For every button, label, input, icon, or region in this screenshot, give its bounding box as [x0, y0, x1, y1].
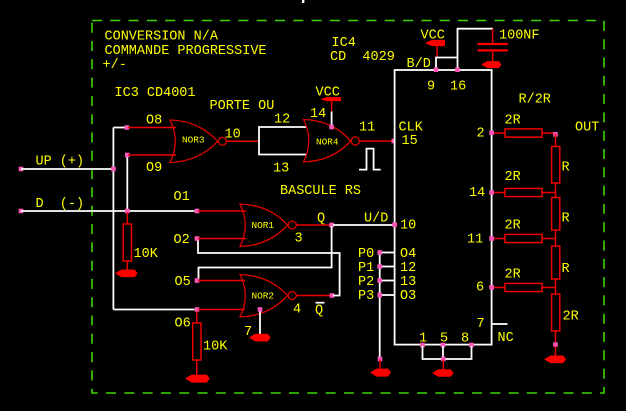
- wire B/D net pin9: [436, 58, 458, 70]
- svg-text:P2: P2: [358, 275, 374, 290]
- svg-text:NC: NC: [498, 331, 514, 346]
- svg-text:10K: 10K: [134, 247, 159, 262]
- junction P3: [377, 293, 382, 298]
- svg-text:12: 12: [274, 113, 290, 128]
- svg-text:O6: O6: [175, 317, 191, 332]
- svg-text:R: R: [562, 212, 570, 227]
- ground 10K lower: [186, 375, 209, 382]
- wire R3 to row6: [555, 279, 557, 294]
- wire pin11 stub: [494, 238, 505, 240]
- wire NOR2 output: [297, 295, 331, 297]
- wire NOR1 input O1: [198, 210, 246, 212]
- wire 2R to node: [542, 132, 556, 134]
- svg-text:NOR3: NOR3: [182, 135, 205, 146]
- svg-text:11: 11: [359, 121, 375, 136]
- junction O5: [195, 278, 200, 283]
- svg-text:10: 10: [225, 128, 241, 143]
- svg-text:2: 2: [477, 127, 485, 142]
- svg-text:CONVERSION N/A: CONVERSION N/A: [105, 30, 219, 45]
- wire resistor to ground: [126, 261, 128, 271]
- wire O8 stub: [113, 127, 125, 129]
- nor-gate NOR4: [304, 120, 360, 163]
- svg-text:2R: 2R: [505, 268, 521, 283]
- capacitor 100NF plates: [478, 43, 508, 51]
- svg-text:12: 12: [400, 261, 416, 276]
- svg-text:B/D: B/D: [407, 57, 431, 72]
- svg-text:P0: P0: [358, 247, 374, 262]
- wire node to ground: [555, 346, 557, 357]
- svg-text:U/D: U/D: [364, 212, 388, 227]
- resistor R3: [552, 246, 570, 279]
- svg-text:10: 10: [400, 219, 416, 234]
- junction pin5 bottom: [441, 357, 446, 362]
- svg-text:100NF: 100NF: [499, 29, 540, 44]
- svg-text:O9: O9: [146, 161, 162, 176]
- wire NC stub: [492, 323, 508, 325]
- junction NOR2 pin7: [258, 307, 263, 312]
- junction U/D pin: [392, 222, 397, 227]
- svg-text:P3: P3: [358, 289, 374, 304]
- svg-text:10K: 10K: [203, 340, 228, 355]
- resistor R2: [552, 198, 570, 231]
- junction P1: [377, 264, 382, 269]
- resistor 2R vertical: [552, 294, 579, 331]
- svg-text:CD 4029: CD 4029: [330, 50, 395, 65]
- wire pin14 stub: [494, 192, 505, 194]
- wire node to R1: [555, 134, 557, 147]
- junction O8: [125, 125, 130, 130]
- junction pin5: [441, 343, 446, 348]
- wire pins 1-5-8 loop: [423, 346, 472, 359]
- wire O9-D vertical: [126, 155, 128, 211]
- node UP input: [19, 155, 84, 172]
- wire 2R to bottom node: [555, 331, 557, 344]
- wire 2R to node row6: [542, 287, 556, 289]
- svg-text:OUT: OUT: [575, 121, 599, 136]
- junction O6: [195, 307, 200, 312]
- resistor 2R row14: [505, 170, 543, 197]
- nor-gate NOR3: [170, 120, 226, 163]
- wire NOR4 input box: [259, 127, 307, 155]
- svg-text:O2: O2: [174, 233, 190, 248]
- wire cap top: [492, 29, 494, 43]
- svg-text:14: 14: [310, 107, 326, 122]
- svg-text:PORTE OU: PORTE OU: [210, 99, 275, 114]
- svg-text:IC3 CD4001: IC3 CD4001: [115, 86, 196, 101]
- wire 2R to node row11: [542, 238, 556, 240]
- svg-text:O5: O5: [175, 275, 191, 290]
- wire NOR4 output to CLK: [360, 140, 393, 142]
- junction pin1: [420, 343, 425, 348]
- svg-text:UP (+): UP (+): [36, 155, 85, 170]
- resistor 10K upper: [123, 224, 159, 262]
- junction O1: [195, 209, 200, 214]
- ground capacitor: [482, 62, 501, 68]
- wire P chain vertical: [379, 253, 381, 358]
- junction Qbar: [330, 293, 335, 298]
- wire UP horizontal: [21, 168, 113, 170]
- title text: [103, 30, 267, 74]
- node D input: [19, 197, 84, 213]
- wire pin7 to ground: [259, 312, 261, 335]
- wire NOR1 output: [297, 224, 331, 226]
- svg-text:11: 11: [467, 233, 483, 248]
- resistor R1: [552, 147, 570, 184]
- wire O6 horizontal: [113, 309, 194, 311]
- junction Q: [329, 223, 334, 228]
- svg-text:R: R: [562, 161, 570, 176]
- wire D to resistor: [126, 213, 128, 225]
- junction 2R bottom: [553, 342, 558, 347]
- svg-text:13: 13: [400, 275, 416, 290]
- wire R2 to row11: [555, 230, 557, 246]
- svg-text:BASCULE RS: BASCULE RS: [280, 184, 361, 199]
- wire R1 to row14: [555, 183, 557, 198]
- svg-text:6: 6: [476, 281, 484, 296]
- svg-text:16: 16: [450, 80, 466, 95]
- svg-text:NOR2: NOR2: [252, 291, 275, 302]
- wire P0 stub: [380, 252, 395, 254]
- ground 2R ladder: [545, 356, 566, 363]
- wire P3 stub: [380, 294, 395, 296]
- svg-text:R: R: [562, 262, 570, 277]
- wire NOR1 input O2: [198, 238, 246, 240]
- power VCC NOR4: [316, 86, 341, 130]
- junction pin6: [489, 285, 494, 290]
- junction CLK pin: [392, 139, 397, 144]
- ground NOR2 pin7: [250, 334, 270, 341]
- junction O9: [125, 153, 130, 158]
- svg-text:O4: O4: [400, 247, 416, 262]
- svg-text:P1: P1: [358, 261, 374, 276]
- wire UP vertical bus O8 to O6: [112, 128, 114, 310]
- svg-text:Q: Q: [315, 304, 323, 319]
- node top marker: [302, 0, 304, 3]
- junction pin2: [489, 131, 494, 136]
- ground 10K upper: [116, 270, 137, 277]
- junction pin11: [489, 236, 494, 241]
- svg-text:O3: O3: [400, 289, 416, 304]
- junction pin8: [469, 343, 474, 348]
- wire D horizontal: [21, 210, 195, 212]
- nor-gate NOR2: [240, 275, 296, 318]
- wire pin16 to cap: [458, 29, 494, 70]
- wire 2R to node row14: [542, 192, 556, 194]
- wire P1 stub: [380, 266, 395, 268]
- ground pin5: [433, 370, 453, 377]
- wire P2 stub: [380, 280, 395, 282]
- junction O2: [195, 236, 200, 241]
- svg-text:8: 8: [461, 332, 469, 347]
- junction pin14: [489, 190, 494, 195]
- svg-text:2R: 2R: [505, 114, 521, 129]
- resistor 2R row11: [505, 219, 543, 243]
- svg-text:D (-): D (-): [36, 197, 85, 212]
- wire NOR3 input O8: [128, 127, 176, 129]
- junction P chain bottom: [378, 357, 383, 362]
- wire O6 to resistor: [196, 311, 198, 324]
- wire NOR3 output to box: [227, 140, 260, 142]
- junction OUT node: [553, 132, 558, 137]
- nor-gate NOR1: [240, 204, 296, 247]
- junction D: [125, 209, 130, 214]
- wire NOR2 input O6: [198, 309, 245, 311]
- wire pin5 to ground: [442, 360, 444, 372]
- waveform clock pulse: [359, 149, 381, 170]
- svg-text:2R: 2R: [563, 310, 579, 325]
- svg-text:O8: O8: [146, 114, 162, 129]
- junction pin16: [455, 67, 460, 72]
- label Qbar: [315, 303, 325, 319]
- svg-text:O1: O1: [174, 190, 190, 205]
- svg-text:R/2R: R/2R: [519, 93, 551, 108]
- wire pin6 stub: [494, 287, 505, 289]
- wire pin5 stub: [442, 346, 444, 357]
- svg-text:NOR4: NOR4: [316, 137, 339, 148]
- wire Q to U/D: [333, 224, 393, 226]
- svg-text:+/-: +/-: [103, 58, 127, 73]
- svg-text:COMMANDE PROGRESSIVE: COMMANDE PROGRESSIVE: [105, 44, 267, 59]
- svg-text:2R: 2R: [505, 219, 521, 234]
- svg-text:IC4: IC4: [332, 36, 356, 51]
- junction UP: [111, 167, 116, 172]
- op-amp IC4 CD4029 body: [395, 70, 492, 345]
- resistor 2R row6: [505, 268, 543, 292]
- wire P chain to ground: [379, 360, 381, 371]
- resistor 10K lower: [193, 323, 229, 360]
- svg-text:15: 15: [402, 134, 418, 149]
- svg-text:4: 4: [293, 303, 301, 318]
- resistor 2R row2: [505, 114, 543, 138]
- wire Qbar to O2 cross-coupling: [198, 241, 340, 296]
- svg-text:NOR1: NOR1: [252, 220, 275, 231]
- wire pin2 stub: [494, 132, 505, 134]
- wire NOR2 input O5: [198, 280, 245, 282]
- junction P2: [377, 278, 382, 283]
- svg-text:14: 14: [469, 186, 485, 201]
- power VCC IC4: [421, 29, 445, 59]
- svg-text:3: 3: [295, 232, 303, 247]
- svg-text:9: 9: [427, 80, 435, 95]
- wire Q to O5 cross-coupling: [199, 226, 332, 279]
- IC4 labels: [330, 36, 395, 65]
- junction P0: [377, 250, 382, 255]
- svg-text:13: 13: [273, 162, 289, 177]
- svg-text:2R: 2R: [505, 170, 521, 185]
- wire cap to ground: [492, 51, 494, 63]
- wire resistor to ground: [196, 360, 198, 376]
- svg-text:7: 7: [477, 317, 485, 332]
- junction pin9: [434, 67, 439, 72]
- wire NOR3 input O9: [128, 154, 176, 156]
- ground P chain: [371, 369, 390, 376]
